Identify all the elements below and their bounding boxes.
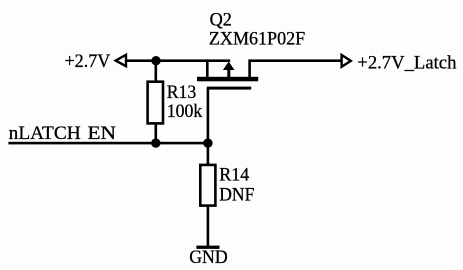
svg-text:DNF: DNF [219, 185, 254, 206]
wire: gate vertical to Q2 [207, 89, 210, 144]
junction: gate / R14 / nLATCH_EN [203, 138, 212, 147]
svg-text:nLATCH: nLATCH [9, 123, 81, 144]
source terminal [206, 59, 209, 78]
junction: +2.7V / R13 top [151, 56, 160, 65]
svg-text:+2.7V_Latch: +2.7V_Latch [357, 53, 456, 74]
svg-text:GND: GND [189, 247, 228, 268]
wire: drain to +2.7V_Latch flag [250, 59, 342, 62]
wire: R14 bottom to ground [207, 207, 210, 247]
resistor R14 [200, 165, 215, 206]
svg-text:R14: R14 [219, 164, 249, 185]
gate bar [207, 87, 251, 90]
bulk arrow head [223, 62, 235, 71]
wire: junction down to R14 [207, 143, 210, 165]
wire: nLATCH_EN horizontal net [8, 142, 209, 145]
svg-text:100k: 100k [167, 101, 203, 122]
svg-text:Q2: Q2 [210, 9, 232, 30]
svg-text:EN: EN [88, 123, 117, 144]
svg-text:R13: R13 [167, 82, 197, 103]
net label nLATCH_EN [9, 123, 116, 144]
transistor Q2 (P-channel MOSFET) [197, 59, 258, 89]
channel bar [197, 77, 258, 82]
power flag +2.7V_Latch (open triangle pointing right) [342, 55, 351, 67]
svg-text:+2.7V: +2.7V [65, 51, 111, 72]
resistor R13 [148, 82, 163, 124]
wire: junction down to R13 [155, 61, 158, 81]
svg-text:ZXM61P02F: ZXM61P02F [209, 29, 305, 50]
drain terminal [248, 59, 251, 78]
wire: +2.7V flag to Q2 source/bulk [126, 59, 231, 62]
junction: R13 / nLATCH_EN [151, 138, 160, 147]
bulk arrow shaft [227, 67, 230, 79]
ground [196, 246, 219, 249]
power flag +2.7V (open triangle pointing left) [116, 55, 126, 66]
wire: R13 bottom to nLATCH_EN net [155, 125, 158, 145]
